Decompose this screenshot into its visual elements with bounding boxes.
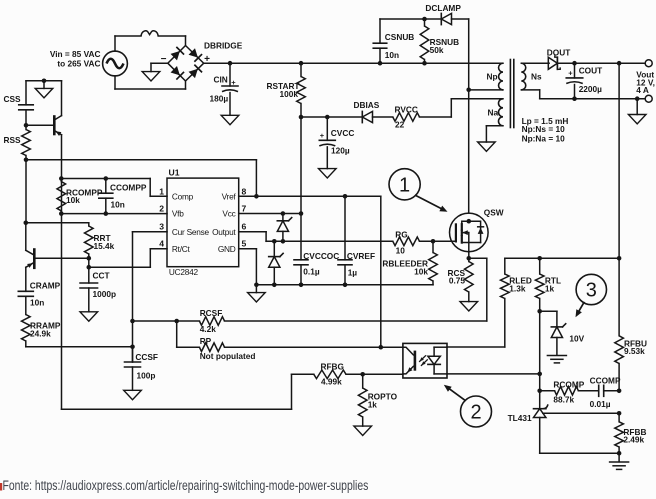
svg-text:CVCC: CVCC: [331, 128, 355, 138]
svg-text:Na: Na: [488, 107, 499, 117]
wire output bottom rail: [540, 98, 646, 100]
transistor Q1 pnp: [26, 81, 62, 136]
svg-text:Vfb: Vfb: [172, 209, 184, 219]
svg-text:10n: 10n: [111, 200, 125, 210]
svg-text:DOUT: DOUT: [547, 47, 571, 57]
svg-text:TL431: TL431: [508, 413, 532, 423]
wire pin4 node: [87, 258, 92, 269]
zener diode 10V: [540, 311, 585, 363]
svg-text:6: 6: [242, 222, 247, 232]
capacitor CRAMP: [18, 267, 60, 314]
wire pin3 Cur Sense: [133, 232, 168, 362]
svg-text:Ns: Ns: [531, 71, 542, 81]
wire pin7 Vcc rail: [239, 211, 304, 216]
svg-text:DCLAMP: DCLAMP: [425, 3, 461, 13]
capacitor CCT: [80, 267, 116, 321]
capacitor CVCC: [319, 115, 355, 178]
svg-text:RCOMP: RCOMP: [553, 379, 584, 389]
zener diode gate clamp: [269, 241, 283, 287]
svg-text:4.2k: 4.2k: [200, 324, 217, 334]
svg-text:UC2842: UC2842: [169, 267, 199, 277]
svg-text:1k: 1k: [368, 400, 378, 410]
resistor RSS: [4, 125, 31, 162]
wire output top rail: [549, 62, 645, 64]
capacitor CVREF: [338, 196, 375, 287]
ground RFBB: [610, 453, 629, 469]
capacitor CCSF: [124, 347, 158, 400]
svg-text:1: 1: [159, 186, 164, 196]
resistor RSTART: [266, 61, 305, 117]
svg-text:Comp: Comp: [172, 191, 194, 201]
wire AC top with fuse bump: [115, 31, 186, 51]
svg-text:10k: 10k: [66, 195, 80, 205]
svg-text:Np:Na = 10: Np:Na = 10: [522, 133, 565, 143]
wire feedback top rail: [537, 256, 621, 261]
resistor ROPTO: [354, 374, 398, 435]
bridge rectifier DBRIDGE: [161, 40, 243, 81]
wire bottom feedback run: [62, 374, 314, 409]
wire analog ground rail: [256, 284, 433, 286]
svg-text:7: 7: [242, 203, 247, 213]
svg-text:CCT: CCT: [93, 270, 110, 280]
wire current sense loop: [225, 258, 487, 321]
capacitor CVCCOC: [294, 214, 339, 288]
wire Vout feedback drop: [617, 61, 622, 336]
svg-text:CVREF: CVREF: [347, 251, 375, 261]
wire pin5 GND: [239, 249, 259, 287]
svg-text:120µ: 120µ: [331, 146, 350, 156]
capacitor CCOMP: [590, 375, 622, 409]
capacitor CCOMPP: [99, 176, 147, 216]
svg-text:RVCC: RVCC: [395, 105, 418, 115]
resistor RFBB: [615, 413, 647, 453]
resistor RRAMP: [22, 315, 61, 347]
svg-text:100k: 100k: [280, 89, 299, 99]
svg-text:DBRIDGE: DBRIDGE: [204, 40, 243, 50]
svg-text:GND: GND: [218, 244, 236, 254]
resistor RRT: [85, 223, 115, 261]
svg-text:RSS: RSS: [4, 135, 22, 145]
shunt regulator TL431: [508, 404, 622, 455]
transformer core: [510, 60, 513, 128]
wire pin4 RtCt: [89, 249, 167, 267]
svg-text:RCSF: RCSF: [200, 308, 223, 318]
svg-text:to 265 VAC: to 265 VAC: [57, 58, 100, 68]
svg-text:10: 10: [396, 246, 406, 256]
wire pin2 Vfb rail: [61, 213, 167, 215]
svg-text:CCOMPP: CCOMPP: [110, 182, 147, 192]
svg-text:1000p: 1000p: [93, 289, 117, 299]
svg-text:U1: U1: [169, 167, 180, 177]
resistor RFBG: [314, 361, 403, 386]
svg-text:Not populated: Not populated: [200, 351, 256, 361]
svg-text:Fonte: https://audioxpress.com: Fonte: https://audioxpress.com/article/r…: [3, 477, 369, 493]
capacitor CSS: [4, 81, 34, 128]
wire RSS to RRT rail: [24, 160, 89, 225]
optocoupler U2: [403, 343, 447, 378]
svg-text:10k: 10k: [414, 266, 428, 276]
resistor RVCC: [393, 105, 420, 130]
resistor RBLEEDER: [382, 239, 437, 285]
capacitor CIN: [210, 61, 239, 125]
node Vcc-feed rail: [299, 99, 503, 119]
svg-text:Np: Np: [487, 71, 498, 81]
svg-text:10n: 10n: [385, 50, 399, 60]
svg-text:180µ: 180µ: [210, 94, 229, 104]
wire snubber top: [380, 19, 469, 90]
resistor RCS: [447, 256, 477, 311]
wire RSTART to Vcc pin: [300, 117, 302, 214]
diode DBIAS: [354, 100, 380, 123]
wire pin8 Vref: [239, 194, 381, 347]
transformer values label: [522, 116, 569, 144]
wire pin6 Output: [239, 232, 393, 244]
zener diode Vcc clamp: [277, 214, 291, 244]
resistor RFBU: [615, 336, 647, 391]
transformer auxiliary Na: [488, 99, 504, 126]
callout circle 3: [576, 274, 607, 317]
svg-text:100p: 100p: [137, 371, 156, 381]
callout circle 1: [389, 169, 448, 212]
wire RTL to TL431: [539, 311, 541, 408]
resistor RCOMPP: [57, 176, 103, 216]
resistor RCOMP: [537, 379, 598, 404]
svg-text:CVCCOC: CVCCOC: [303, 251, 339, 261]
svg-text:9.53k: 9.53k: [624, 346, 645, 356]
svg-text:24.9k: 24.9k: [30, 329, 51, 339]
svg-text:2200µ: 2200µ: [579, 84, 602, 94]
svg-text:0.75: 0.75: [449, 276, 466, 286]
svg-text:4 A: 4 A: [636, 85, 649, 95]
bridge negative ground: [142, 63, 168, 81]
transistor QSW mosfet: [450, 208, 504, 259]
label Vout: [636, 70, 655, 96]
svg-text:2.49k: 2.49k: [623, 434, 644, 444]
svg-text:+: +: [568, 69, 573, 78]
svg-text:QSW: QSW: [484, 208, 504, 218]
svg-text:CRAMP: CRAMP: [30, 281, 61, 291]
ground soft-start: [26, 79, 62, 98]
wire ramp to cur sense: [26, 345, 135, 350]
svg-text:DBIAS: DBIAS: [354, 100, 380, 110]
svg-text:2: 2: [470, 402, 481, 424]
Na ground: [478, 126, 503, 152]
svg-text:3: 3: [586, 280, 597, 302]
output terminal -: [645, 95, 652, 102]
wire opto cathode to TL431: [447, 372, 542, 377]
svg-text:50k: 50k: [430, 45, 444, 55]
svg-text:0.1µ: 0.1µ: [303, 266, 320, 276]
svg-text:10V: 10V: [569, 333, 584, 343]
pin numbers U1: [159, 186, 246, 248]
svg-text:4: 4: [159, 239, 164, 249]
svg-text:COUT: COUT: [579, 65, 603, 75]
transformer secondary Ns: [521, 63, 542, 90]
ground pin5: [248, 285, 266, 302]
svg-text:CSNUB: CSNUB: [385, 32, 415, 42]
svg-text:22: 22: [395, 119, 405, 129]
svg-text:RP: RP: [200, 336, 212, 346]
svg-text:CIN: CIN: [214, 74, 228, 84]
red margin mark: [0, 483, 2, 491]
wire AC bottom: [115, 76, 186, 89]
svg-text:RG: RG: [395, 229, 407, 239]
wire Vref to soft-start rail: [26, 160, 256, 197]
svg-text:5: 5: [242, 239, 247, 249]
AC source Vin: [50, 49, 128, 76]
svg-text:+: +: [231, 78, 236, 87]
svg-text:Vcc: Vcc: [222, 209, 235, 219]
capacitor COUT: [566, 61, 602, 101]
diode DOUT schottky: [547, 47, 571, 69]
svg-text:2: 2: [159, 203, 164, 213]
svg-text:+: +: [320, 131, 325, 140]
svg-text:15.4k: 15.4k: [94, 241, 115, 251]
svg-text:3: 3: [159, 222, 164, 232]
callout circle 2: [444, 385, 492, 427]
svg-text:4.99k: 4.99k: [321, 376, 342, 386]
svg-text:1.3k: 1.3k: [509, 283, 526, 293]
wire Q1 collector drop: [61, 135, 63, 409]
svg-text:CCOMP: CCOMP: [590, 375, 621, 385]
diode DCLAMP: [425, 3, 461, 25]
op-amp U1 UC2842 box: [167, 167, 239, 276]
svg-text:CCSF: CCSF: [135, 352, 158, 362]
svg-text:RFBG: RFBG: [321, 361, 345, 371]
svg-text:CSS: CSS: [4, 94, 22, 104]
svg-text:1: 1: [399, 174, 410, 196]
svg-text:1µ: 1µ: [348, 267, 358, 277]
svg-text:Output: Output: [212, 227, 236, 237]
output terminal +: [645, 60, 652, 67]
resistor RG: [393, 229, 456, 255]
svg-text:Cur Sense: Cur Sense: [172, 227, 210, 237]
output ground: [628, 96, 646, 124]
svg-text:8: 8: [242, 186, 247, 196]
transistor Q2 pnp: [26, 223, 89, 268]
svg-text:Vref: Vref: [222, 191, 237, 201]
wire pin1 Comp: [61, 179, 167, 197]
svg-text:10n: 10n: [30, 297, 44, 307]
resistor RP not populated: [177, 321, 403, 361]
wire Np bottom to drain: [466, 88, 503, 214]
svg-text:Vin = 85 VAC: Vin = 85 VAC: [50, 49, 101, 59]
resistor RCSF: [130, 308, 224, 334]
svg-text:1k: 1k: [545, 283, 555, 293]
svg-text:88.7k: 88.7k: [553, 394, 574, 404]
svg-text:Rt/Ct: Rt/Ct: [172, 244, 191, 254]
transformer primary Np: [487, 63, 504, 90]
wire Ns leads: [521, 63, 549, 98]
resistor RSNUB: [420, 17, 459, 66]
wire HV rail: [204, 62, 503, 64]
svg-text:0.01µ: 0.01µ: [590, 399, 611, 409]
resistor RLED: [447, 258, 540, 347]
capacitor CSNUB: [373, 19, 414, 66]
resistor RTL: [535, 258, 561, 313]
